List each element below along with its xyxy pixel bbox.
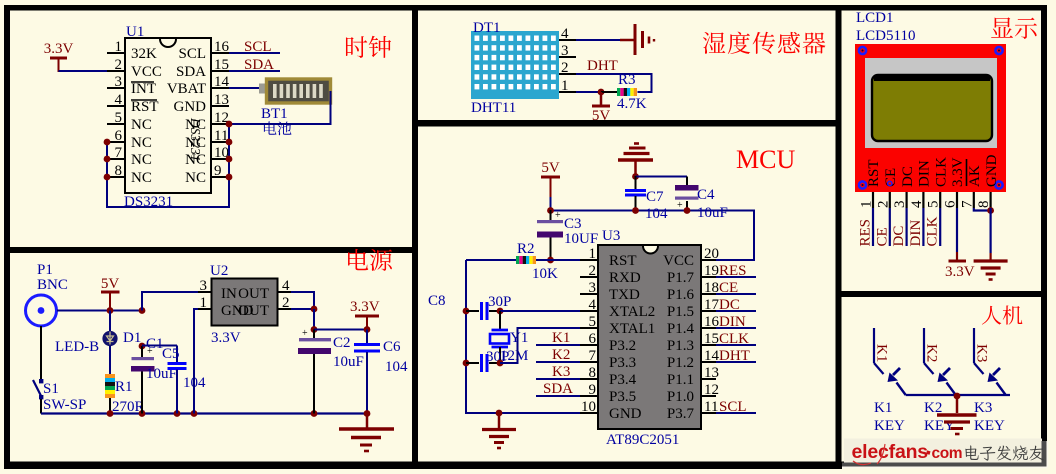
svg-text:10uF: 10uF xyxy=(697,205,728,221)
svg-text:XTAL2: XTAL2 xyxy=(609,304,655,320)
U2 pin 1 xyxy=(198,308,212,310)
svg-text:P1.3: P1.3 xyxy=(667,338,694,354)
svg-text:3: 3 xyxy=(200,278,208,294)
svg-text:BT1: BT1 xyxy=(261,106,288,122)
junction dot 5V rail xyxy=(547,207,554,214)
svg-text:RXD: RXD xyxy=(609,270,641,286)
svg-text:K2: K2 xyxy=(552,347,570,363)
battery BT1 xyxy=(259,84,267,94)
capacitor C3 (polar, reset) xyxy=(550,210,552,220)
svg-text:8: 8 xyxy=(589,365,597,381)
title: humidity sensor (shi du chuan gan qi) xyxy=(703,32,725,54)
junction node pin1/5V xyxy=(598,89,605,96)
svg-text:3.3V: 3.3V xyxy=(44,41,74,57)
svg-text:7: 7 xyxy=(959,200,975,208)
resistor R2 xyxy=(466,259,516,261)
svg-text:16: 16 xyxy=(214,39,230,55)
svg-text:AK: AK xyxy=(967,165,983,187)
capacitor C1 (polar) xyxy=(139,343,146,350)
power symbol 3.3V xyxy=(50,57,67,60)
svg-text:5V: 5V xyxy=(541,160,560,176)
overline RST xyxy=(131,99,157,101)
key lever K1 xyxy=(897,383,906,396)
svg-text:C1: C1 xyxy=(146,336,164,352)
5V rail wire to pin20 xyxy=(551,211,755,261)
svg-text:K3: K3 xyxy=(552,364,570,380)
outer border frame xyxy=(4,5,1047,11)
svg-text:3: 3 xyxy=(561,43,569,59)
junction dot gnd/C7/C4 xyxy=(632,173,639,180)
title: display (xian shi) xyxy=(991,17,1013,37)
svg-text:C3: C3 xyxy=(564,216,582,232)
svg-text:NC: NC xyxy=(131,170,152,186)
svg-text:8: 8 xyxy=(976,201,992,209)
wire output to 3.3V/C6 xyxy=(314,329,367,331)
svg-text:1: 1 xyxy=(589,246,597,262)
key switch K3 xyxy=(973,328,975,363)
svg-text:20: 20 xyxy=(704,246,719,262)
svg-text:DIN: DIN xyxy=(908,220,924,247)
svg-text:3.3V: 3.3V xyxy=(350,299,380,315)
svg-text:12: 12 xyxy=(704,382,719,398)
wire battery to pin12 xyxy=(229,91,331,124)
svg-text:P1: P1 xyxy=(37,262,53,278)
svg-text:9: 9 xyxy=(214,163,222,179)
LCD pin stubs and numbers xyxy=(872,192,874,208)
wire to U2 pin3 xyxy=(142,292,198,311)
svg-text:4.7K: 4.7K xyxy=(617,96,647,112)
corner screw holes xyxy=(859,47,866,54)
svg-text:TXD: TXD xyxy=(609,287,640,303)
svg-text:NC: NC xyxy=(131,117,152,133)
svg-text:VBAT: VBAT xyxy=(167,81,206,97)
svg-text:10UF: 10UF xyxy=(564,231,598,247)
junction dots on NC pins xyxy=(104,139,111,146)
capacitor C5 xyxy=(142,345,177,347)
ground (keys) xyxy=(956,396,959,413)
svg-text:2: 2 xyxy=(875,201,891,209)
svg-text:P3.4: P3.4 xyxy=(609,372,637,388)
box divider clock/power xyxy=(4,247,418,253)
wire crystal bottom to XTAL1 pin5 xyxy=(500,328,580,363)
wire SDA pin15 xyxy=(229,70,280,72)
LCD module red board xyxy=(855,44,1006,192)
capacitor C4 (polar) xyxy=(686,177,688,186)
DT1 pins 4,3,2,1 xyxy=(559,39,576,41)
LCD wires pins 1-5 with rotated net labels xyxy=(872,208,874,246)
svg-text:S1: S1 xyxy=(43,381,59,397)
U2 pin1 wire to ground rail xyxy=(194,309,198,414)
svg-text:C7: C7 xyxy=(646,189,664,205)
left ground rail xyxy=(466,260,580,413)
overline on AK xyxy=(966,159,968,186)
svg-text:P3.5: P3.5 xyxy=(609,389,636,405)
svg-text:NC: NC xyxy=(131,135,152,151)
svg-text:+: + xyxy=(555,210,561,221)
svg-text:C5: C5 xyxy=(162,346,180,362)
switch S1 xyxy=(40,326,42,379)
title: human-machine (ren ji) xyxy=(982,306,1001,325)
power symbol 5V (down) xyxy=(600,92,603,105)
svg-text:DIN: DIN xyxy=(917,160,933,187)
inverted ground (top of MCU) xyxy=(618,158,653,161)
svg-text:7: 7 xyxy=(115,145,123,161)
svg-text:2: 2 xyxy=(589,263,597,279)
key arrow K2 xyxy=(943,368,950,375)
svg-text:1: 1 xyxy=(561,78,569,94)
svg-text:12M: 12M xyxy=(500,348,528,364)
LED D1 xyxy=(109,311,111,332)
power symbol 5V (mcu) xyxy=(541,176,560,179)
svg-text:1: 1 xyxy=(200,295,208,311)
U3 left pins 1-10 xyxy=(580,259,598,261)
svg-text:SW-SP: SW-SP xyxy=(43,397,86,413)
capacitor C8 xyxy=(463,308,470,315)
svg-text:P1.4: P1.4 xyxy=(667,321,695,337)
key switch K2 xyxy=(923,328,925,363)
U1 left pins 1-8 xyxy=(107,52,125,54)
label battery (dian chi) xyxy=(264,121,277,134)
resistor R1 xyxy=(109,346,111,374)
svg-text:P1.1: P1.1 xyxy=(667,372,694,388)
svg-text:5V: 5V xyxy=(592,108,611,124)
svg-text:4: 4 xyxy=(115,92,123,108)
svg-text:4: 4 xyxy=(589,297,597,313)
svg-text:NC: NC xyxy=(185,135,206,151)
wire pin1 xyxy=(576,91,601,93)
wire pin2 / R3 top loop xyxy=(576,74,652,92)
svg-text:C6: C6 xyxy=(383,339,401,355)
box divider vertical middle/right xyxy=(836,5,842,466)
elecfans logo strip xyxy=(844,439,1042,463)
key arrow K3 xyxy=(993,368,1000,375)
wire pin4 to pin2 output node xyxy=(291,292,314,309)
svg-text:OUT: OUT xyxy=(238,303,269,319)
svg-text:elecfans: elecfans xyxy=(852,441,929,463)
MCU ground bottom xyxy=(496,410,503,417)
svg-text:Y1: Y1 xyxy=(510,330,528,346)
title: power (dian yuan) xyxy=(348,249,368,270)
svg-text:15: 15 xyxy=(214,57,229,73)
svg-text:3: 3 xyxy=(115,74,123,90)
CE bubble xyxy=(888,181,892,185)
capacitor C6 xyxy=(366,330,368,344)
svg-text:AT89C2051: AT89C2051 xyxy=(606,432,679,448)
pin6 wire to 3.3V xyxy=(956,208,958,252)
svg-text:DHT11: DHT11 xyxy=(471,100,516,116)
svg-text:5V: 5V xyxy=(101,276,120,292)
svg-text:3.3V: 3.3V xyxy=(945,264,975,280)
svg-text:GND: GND xyxy=(609,406,642,422)
svg-text:13: 13 xyxy=(704,365,719,381)
pin8 wire to ground xyxy=(989,208,991,253)
wire pin4 to ground xyxy=(576,39,620,41)
svg-text:1: 1 xyxy=(115,39,123,55)
wire SCL pin16 xyxy=(229,52,280,54)
svg-text:BNC: BNC xyxy=(37,277,68,293)
key lever K2 xyxy=(947,383,956,396)
svg-text:SCL: SCL xyxy=(178,46,206,62)
LCD olive screen xyxy=(872,75,992,141)
key switch K1 xyxy=(873,328,875,363)
svg-text:CE: CE xyxy=(883,168,899,187)
crystal Y1 xyxy=(499,311,501,330)
svg-text:DHT: DHT xyxy=(587,58,618,74)
svg-text:P1.7: P1.7 xyxy=(667,270,695,286)
box divider display/renji xyxy=(836,291,1048,297)
svg-text:LED-B: LED-B xyxy=(55,339,99,355)
wire C8 to XTAL2 pin4 xyxy=(500,310,580,312)
svg-text:DC: DC xyxy=(891,226,907,247)
box divider vertical left/middle xyxy=(412,5,418,466)
svg-text:32K: 32K xyxy=(131,46,157,62)
svg-text:4: 4 xyxy=(561,26,569,42)
svg-text:K3: K3 xyxy=(974,400,992,416)
svg-text:KEY: KEY xyxy=(974,418,1005,434)
svg-text:R3: R3 xyxy=(618,72,636,88)
wire BNC to regulator input xyxy=(57,310,142,312)
svg-text:P1.2: P1.2 xyxy=(667,355,694,371)
svg-text:P1.6: P1.6 xyxy=(667,287,695,303)
wire pin14 to battery xyxy=(229,87,262,89)
svg-text:+: + xyxy=(677,200,683,211)
U2 pin 2 xyxy=(278,308,292,310)
pin7 jog wire to pin8 xyxy=(974,208,991,211)
svg-text:8: 8 xyxy=(115,163,123,179)
svg-text:NC: NC xyxy=(185,117,206,133)
svg-text:5: 5 xyxy=(926,201,942,209)
svg-text:3.3V: 3.3V xyxy=(950,157,966,187)
svg-text:GND: GND xyxy=(984,154,1000,187)
svg-text:CLK: CLK xyxy=(933,157,949,187)
svg-text:P3.3: P3.3 xyxy=(609,355,636,371)
key arrow K1 xyxy=(893,368,900,375)
capacitor C7 xyxy=(635,176,637,189)
svg-text:+: + xyxy=(302,328,308,339)
svg-text:104: 104 xyxy=(645,206,668,222)
ground (power) xyxy=(364,410,371,417)
svg-text:3: 3 xyxy=(589,280,597,296)
logo chinese: dian zi fa shao you xyxy=(965,446,978,460)
svg-text:104: 104 xyxy=(385,359,408,375)
connector P1 BNC xyxy=(26,295,57,326)
U2 pin 3 xyxy=(198,291,212,293)
svg-text:U3: U3 xyxy=(602,228,620,244)
capacitor C2 (polar) xyxy=(313,330,315,339)
svg-text:C4: C4 xyxy=(697,187,715,203)
output node down xyxy=(313,309,315,330)
box divider humidity/MCU xyxy=(412,120,841,127)
svg-text:K1: K1 xyxy=(874,344,890,362)
keys common bus xyxy=(906,394,1010,396)
svg-text:14: 14 xyxy=(214,74,230,90)
svg-text:LCD5110: LCD5110 xyxy=(856,28,915,44)
wire 3.3V to U1 pin2 xyxy=(59,70,109,72)
svg-text:C2: C2 xyxy=(333,335,351,351)
svg-text:13: 13 xyxy=(214,92,229,108)
svg-text:NC: NC xyxy=(185,170,206,186)
svg-text:RES: RES xyxy=(858,219,874,247)
svg-text:2: 2 xyxy=(115,57,123,73)
svg-text:D1: D1 xyxy=(123,330,141,346)
svg-text:DC: DC xyxy=(900,166,916,187)
svg-text:3: 3 xyxy=(892,201,908,209)
svg-text:2: 2 xyxy=(561,60,569,76)
sensor DT1 DHT11 body xyxy=(471,31,559,99)
svg-text:2: 2 xyxy=(282,295,290,311)
svg-text:K3: K3 xyxy=(974,344,990,362)
title: clock section (shi zhong) xyxy=(346,36,367,58)
logo flourish xyxy=(853,444,885,465)
svg-text:P1.5: P1.5 xyxy=(667,304,694,320)
U2 pin 4 xyxy=(278,291,292,293)
ground (display) xyxy=(974,259,1008,262)
chip U1 DS3231 body xyxy=(125,38,211,193)
svg-text:K1: K1 xyxy=(874,400,892,416)
LCD gray panel xyxy=(865,58,997,148)
svg-text:VCC: VCC xyxy=(663,253,694,269)
svg-text:4: 4 xyxy=(282,278,290,294)
svg-text:KEY: KEY xyxy=(874,418,905,434)
svg-text:U1: U1 xyxy=(126,24,144,40)
svg-text:U2: U2 xyxy=(210,263,228,279)
ground (sideways) for pin4 xyxy=(634,24,637,55)
svg-text:30P: 30P xyxy=(488,294,511,310)
chip U3 AT89C2051 body xyxy=(598,245,701,429)
svg-text:IN: IN xyxy=(221,286,237,302)
svg-text:R1: R1 xyxy=(115,379,133,395)
U3 right pins 20-11 xyxy=(701,259,716,261)
svg-text:10K: 10K xyxy=(532,266,558,282)
key lever K3 xyxy=(997,383,1006,396)
svg-text:5: 5 xyxy=(115,110,123,126)
power symbol 3.3V (display) xyxy=(949,260,967,263)
svg-text:NC: NC xyxy=(185,152,206,168)
svg-text:7: 7 xyxy=(589,348,597,364)
svg-text:K1: K1 xyxy=(552,330,570,346)
svg-text:DT1: DT1 xyxy=(473,20,501,36)
svg-text:XTAL1: XTAL1 xyxy=(609,321,655,337)
resistor R3 xyxy=(601,91,617,93)
regulator U2 body xyxy=(212,279,278,326)
svg-text:1: 1 xyxy=(859,201,875,209)
svg-text:6: 6 xyxy=(115,128,123,144)
svg-text:3.3V: 3.3V xyxy=(211,330,241,346)
U1 right pins 16-9 xyxy=(211,52,229,54)
svg-text:NC: NC xyxy=(131,152,152,168)
svg-text:RST: RST xyxy=(866,159,882,187)
svg-text:P3.7: P3.7 xyxy=(667,406,695,422)
svg-text:P1.0: P1.0 xyxy=(667,389,694,405)
svg-text:SDA: SDA xyxy=(176,64,206,80)
NC pins loop wire xyxy=(107,124,229,207)
svg-text:MCU: MCU xyxy=(736,145,795,174)
svg-text:5: 5 xyxy=(589,314,597,330)
svg-text:OUT: OUT xyxy=(238,286,269,302)
svg-text:GND: GND xyxy=(174,99,207,115)
svg-text:INT: INT xyxy=(131,81,156,97)
svg-text:4: 4 xyxy=(909,200,925,208)
svg-text:CLK: CLK xyxy=(925,216,941,246)
svg-text:R2: R2 xyxy=(517,241,535,257)
svg-text:P3.2: P3.2 xyxy=(609,338,636,354)
svg-text:6: 6 xyxy=(943,200,959,208)
svg-text:9: 9 xyxy=(589,382,597,398)
svg-text:C8: C8 xyxy=(428,293,446,309)
svg-text:VCC: VCC xyxy=(131,64,162,80)
svg-text:10: 10 xyxy=(581,399,596,415)
svg-text:LCD1: LCD1 xyxy=(856,10,894,26)
svg-text:K2: K2 xyxy=(924,344,940,362)
svg-text:10uF: 10uF xyxy=(333,354,364,370)
svg-text:CE: CE xyxy=(874,227,890,246)
overline INT xyxy=(131,81,154,83)
wire gnd node to C4 xyxy=(636,176,688,178)
svg-text:SDA: SDA xyxy=(543,381,573,397)
svg-text:RST: RST xyxy=(609,253,637,269)
capacitor C9 (bottom 30P) xyxy=(463,360,470,367)
power symbol 5V (power box) xyxy=(101,291,120,294)
svg-text:6: 6 xyxy=(589,331,597,347)
ground bus rail (power) xyxy=(41,412,367,414)
svg-text:RST: RST xyxy=(131,99,159,115)
svg-text:com: com xyxy=(932,445,963,462)
